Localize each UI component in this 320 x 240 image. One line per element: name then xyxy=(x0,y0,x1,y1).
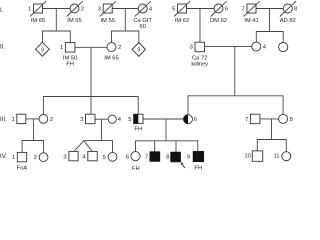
svg-text:4: 4 xyxy=(263,45,267,51)
svg-text:3: 3 xyxy=(190,45,193,51)
wire: mating line II-3 x II-4 xyxy=(205,46,252,48)
wire: descent drop couple I-1/I-2 xyxy=(55,9,57,32)
individual II-5: female xyxy=(279,43,288,52)
svg-text:10: 10 xyxy=(244,154,250,160)
svg-text:IM 55: IM 55 xyxy=(100,18,115,24)
svg-text:IV.: IV. xyxy=(0,153,7,160)
wire: sibship bar children of III-3/III-4 with twin apex xyxy=(74,141,92,152)
svg-text:7: 7 xyxy=(245,117,248,123)
svg-text:5: 5 xyxy=(172,6,175,12)
individual II-4: female xyxy=(252,42,267,51)
individual IV-7: affected male (filled) xyxy=(145,152,160,162)
wire: mating line III-7 x III-8 xyxy=(260,118,279,120)
individual I-5: deceased male, IM 62 xyxy=(172,1,190,24)
svg-text:9: 9 xyxy=(137,48,140,54)
svg-text:1: 1 xyxy=(12,117,15,123)
wire: drop into IV-8 xyxy=(175,141,177,152)
wire: mating line I-7 x I-8 xyxy=(256,8,283,10)
svg-text:3: 3 xyxy=(98,6,101,12)
wire: descent drop couple III-1/III-2 xyxy=(33,119,35,141)
individual II-3: male, Ca 72 kidney xyxy=(190,42,209,67)
svg-text:3: 3 xyxy=(80,117,83,123)
svg-text:FH: FH xyxy=(194,165,202,170)
individual IV-4: male twin xyxy=(83,151,98,160)
wire: sibship bar children of II-3/II-4 xyxy=(188,96,283,115)
svg-text:1: 1 xyxy=(12,155,15,161)
wire: mating line III-3 x III-4 xyxy=(95,118,108,120)
individual IV-5: female xyxy=(103,152,117,161)
svg-text:7: 7 xyxy=(242,6,245,12)
individual IV-8: affected male (filled), proband xyxy=(166,152,180,162)
svg-text:IM 65: IM 65 xyxy=(67,18,82,24)
individual I-2: deceased female, IM 65 xyxy=(67,1,84,24)
individual IV-9: affected male (filled), FH xyxy=(187,151,204,171)
individual III-6: half-filled female xyxy=(184,115,198,124)
svg-text:III.: III. xyxy=(0,116,7,123)
wire: descent drop couple III-7/III-8 xyxy=(271,119,273,140)
svg-text:7: 7 xyxy=(145,154,148,160)
wire: mating line I-1 x I-2 xyxy=(43,8,71,10)
individual III-4: female xyxy=(108,115,122,123)
individual IV-2: female xyxy=(34,153,48,162)
svg-text:2: 2 xyxy=(34,155,37,161)
individual I-3: deceased male, IM 55 xyxy=(98,1,116,24)
svg-text:4: 4 xyxy=(83,154,87,160)
svg-text:2: 2 xyxy=(118,45,121,51)
svg-text:60: 60 xyxy=(139,24,145,30)
proband arrow pointing at IV-8 xyxy=(181,162,185,168)
svg-text:8: 8 xyxy=(166,154,169,160)
individual IV-3: male twin xyxy=(63,151,78,160)
svg-text:FoA: FoA xyxy=(17,165,28,170)
svg-text:FH: FH xyxy=(134,126,142,132)
wire: sibship bar children of III-7/III-8 xyxy=(257,140,286,152)
svg-text:2: 2 xyxy=(81,6,84,12)
svg-text:1: 1 xyxy=(28,6,31,12)
node: diamond sibling group (5) right xyxy=(132,43,145,57)
wire: sibship bar children of III-1/III-2 xyxy=(22,141,43,153)
svg-text:DM 62: DM 62 xyxy=(210,18,227,24)
svg-text:3: 3 xyxy=(63,154,66,160)
wire: descent drop couple II-1/II-2 xyxy=(90,47,92,96)
wire: sibship bar children of III-5/III-6 xyxy=(136,141,198,152)
individual I-6: deceased female, DM 62 xyxy=(210,1,228,24)
svg-text:2: 2 xyxy=(50,117,53,123)
svg-text:8: 8 xyxy=(290,117,293,123)
wire: sibship bar children of II-1/II-2 xyxy=(43,97,138,115)
node: diamond sibling group (2) left xyxy=(36,42,50,56)
individual III-2: female xyxy=(39,115,53,124)
individual III-5: half-filled male, FH xyxy=(128,114,143,132)
svg-text:I.: I. xyxy=(0,7,4,14)
svg-text:4: 4 xyxy=(149,6,153,12)
wire: descent drop couple I-5/I-6 to II-3 xyxy=(199,9,201,43)
individual IV-11: female xyxy=(274,152,291,161)
svg-text:5: 5 xyxy=(103,155,106,161)
individual I-7: deceased male, IM 41 xyxy=(242,1,260,24)
svg-text:6: 6 xyxy=(194,117,197,123)
wire: sibship bar children of I-7/I-8 xyxy=(256,32,283,43)
wire: descent drop couple I-3/I-4 xyxy=(124,9,126,32)
wire: mating line III-1 x III-2 xyxy=(26,118,39,120)
svg-text:IM 65: IM 65 xyxy=(104,56,119,62)
wire: mating line II-1 x II-2 xyxy=(75,46,107,48)
svg-text:IM 41: IM 41 xyxy=(244,18,259,24)
individual III-3: male xyxy=(80,114,95,124)
wire: mating line I-5 x I-6 xyxy=(187,8,215,10)
svg-text:FH: FH xyxy=(66,62,74,68)
wire: sibship bar children of I-3/I-4 xyxy=(112,31,139,43)
svg-text:8: 8 xyxy=(294,6,297,12)
individual II-1: male, IM 50 FH xyxy=(60,43,77,68)
wire: descent drop couple III-3/III-4 xyxy=(101,119,103,140)
individual III-8: female xyxy=(279,114,293,123)
svg-text:II.: II. xyxy=(0,44,5,51)
svg-text:9: 9 xyxy=(41,47,44,53)
svg-text:6: 6 xyxy=(225,6,228,12)
svg-text:1: 1 xyxy=(60,45,63,51)
svg-text:6: 6 xyxy=(126,154,129,160)
individual III-1: male xyxy=(12,114,26,123)
wire: sibship bar children of I-1/I-2 xyxy=(42,31,70,43)
svg-text:AD 82: AD 82 xyxy=(280,18,296,24)
individual I-4: deceased female, Ca GIT 60 xyxy=(133,1,153,30)
individual IV-10: male xyxy=(244,151,262,161)
wire: descent drop couple II-3/II-4 xyxy=(234,47,236,96)
individual III-7: male xyxy=(245,114,260,124)
individual I-1: deceased male, IM 65 xyxy=(28,1,46,24)
svg-text:5: 5 xyxy=(128,117,131,123)
svg-text:4: 4 xyxy=(118,117,122,123)
wire: drop into III-3 xyxy=(90,97,92,115)
svg-text:11: 11 xyxy=(274,154,280,160)
svg-text:9: 9 xyxy=(187,154,190,160)
wire: descent drop couple I-7/I-8 xyxy=(269,9,271,32)
svg-text:IM 62: IM 62 xyxy=(175,18,190,24)
individual IV-6: female, FH xyxy=(126,152,140,172)
wire: drop into IV-7 xyxy=(154,141,156,152)
svg-text:FH: FH xyxy=(132,166,140,170)
svg-text:kidney: kidney xyxy=(191,61,208,67)
svg-text:IM 65: IM 65 xyxy=(31,18,46,24)
wire: descent drop couple III-5/III-6 xyxy=(165,119,167,141)
individual IV-1: male, FoA xyxy=(12,152,28,171)
individual II-2: female, IM 65 xyxy=(104,43,121,62)
individual I-8: deceased female, AD 82 xyxy=(280,1,297,24)
wire: mating line III-5 x III-6 xyxy=(143,118,184,120)
wire: mating line I-3 x I-4 xyxy=(112,8,138,10)
